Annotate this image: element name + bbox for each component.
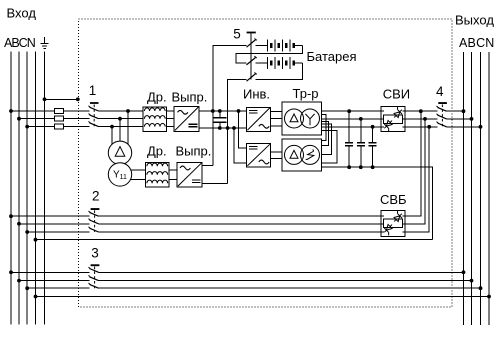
output bus line B [471,52,473,325]
wire T1-T2 tie 3 [322,124,332,154]
wire feed2 neutral [36,239,433,241]
wire Q4 phase B to output [447,118,472,120]
node drop B to transformer V1 [119,119,121,142]
breaker Q4 [437,102,447,127]
label 5 [233,27,241,42]
label Вход [7,6,37,21]
wire T1-T2 tie 4 [322,130,338,163]
battery GB2 [267,57,302,69]
svg-text:5: 5 [233,27,241,42]
breaker Q3 [89,264,100,288]
static switch U6 bypass [381,210,405,236]
wire battery plus riser [213,45,247,165]
UPS cabinet dotted border [79,19,453,307]
svg-text:1: 1 [89,83,97,98]
label 2 [92,189,100,204]
svg-text:Выпр.: Выпр. [176,144,212,159]
node drop C to transformer V1 [111,127,113,145]
label Y11 winding [113,170,127,181]
wire feed1 phase B [19,118,143,120]
label СВБ [380,192,407,207]
svg-text:Батарея: Батарея [307,49,357,64]
capacitor C4 filter C [369,127,377,167]
choke L1 [143,107,167,131]
label Выход [455,13,494,28]
node DC bus minus junctions [218,126,236,130]
wire feed2 phase A [11,215,384,217]
svg-text:ABCN: ABCN [459,36,495,50]
capacitor C3 filter B [357,119,365,167]
rectifier U2 [177,162,202,187]
transformer T1 [282,102,322,135]
svg-text:Др.: Др. [147,144,167,159]
wire GB2 return [256,63,303,79]
label Др. upper [147,89,167,104]
svg-text:Выход: Выход [455,13,494,28]
label Выпр. upper [172,89,208,104]
label 1 [89,83,97,98]
svg-text:3: 3 [91,246,99,261]
choke L2 [146,162,170,187]
input bus line B [18,52,20,325]
label Др. lower [147,144,167,159]
svg-text:СВБ: СВБ [380,192,407,207]
wire feed2 phase B [19,223,384,225]
wire feed3 phase B [19,280,472,282]
node neutral bus junctions [347,165,374,169]
rectifier U1 [174,106,199,131]
label 4 [436,84,444,99]
wire bus plus to inverter U4 [239,111,247,148]
wire Q4 phase A to output [447,110,464,112]
svg-text:Вход: Вход [7,6,37,21]
input bus line C [26,52,28,325]
wires inverter U4 to transformer T2 [271,152,282,159]
label Тр-р [293,86,319,101]
input bus line PE [44,52,46,325]
node PE tap junctions [43,97,80,101]
wire feed3 phase A [11,271,464,273]
inverter U3 [247,107,271,131]
wire battery loop GB1 to GB2 [236,45,302,63]
wire U2 minus out [202,183,228,185]
wire T1-T2 tie 1 [322,114,326,140]
transformer V1 measuring [108,141,131,186]
wire battery minus riser [228,79,247,183]
wires choke L2 to rectifier U2 [169,170,177,180]
capacitor C2 filter A [345,111,353,167]
output bus line A [463,52,465,325]
wire DC bus minus [199,127,247,129]
node output junctions from Q4 [462,109,483,128]
node feed3 taps on input bus [9,270,37,298]
label Батарея [307,49,357,64]
wire T1 phase A out [322,110,438,112]
label ABCN output [459,36,495,50]
svg-text:Инв.: Инв. [243,86,270,101]
label Выпр. lower [176,144,212,159]
svg-text:4: 4 [436,84,444,99]
wire T1-T2 tie 2 [322,122,329,146]
inverter U4 [247,143,271,167]
label ABCN input [4,36,36,50]
node output junctions from feed3 [462,270,491,298]
input bus line A [10,52,12,325]
transformer T2 [282,139,322,171]
switch Q5 battery [247,32,257,82]
wires choke L1 to rectifier U1 [167,111,175,127]
node bypass tie junctions [419,109,431,128]
breaker Q1 [89,102,99,127]
node DC bus plus junctions [211,109,241,113]
wire neutral bus to bypass [322,167,433,240]
node V1 taps after Q1 [110,109,130,128]
wire Q5 to battery GB1 [256,44,268,46]
wire bypass riser A [402,111,420,216]
ground PE symbol [41,37,49,48]
wire T1 phase C out [322,126,438,128]
label 3 [91,246,99,261]
fuse FC [54,124,63,129]
wire feed1 phase A [11,110,143,112]
capacitor C1 DC link [213,111,226,128]
node feed2 taps on input bus [9,214,37,241]
input bus line N [35,52,37,325]
svg-text:Др.: Др. [147,89,167,104]
svg-text:СВИ: СВИ [383,87,410,102]
svg-text:Тр-р: Тр-р [293,86,319,101]
output bus line C [480,52,482,325]
wires inverter U3 to transformer T1 [271,112,282,127]
wire feed2 phase C [27,231,384,233]
wires V1 to choke L2 [131,170,146,180]
wire bypass riser B [402,119,425,224]
fuse FA [54,109,63,114]
svg-text:ABCN: ABCN [4,36,36,50]
output bus line N [488,52,490,325]
label Инв. [243,86,270,101]
breaker Q2 [89,208,100,232]
battery GB1 [267,39,302,51]
wire Q5 to battery GB2 [256,62,268,64]
static switch U5 inverter side [381,106,405,132]
wire T1 phase B out [322,118,438,120]
wire feed1 phase C [27,126,143,128]
wire U2 plus out [202,165,213,167]
node drop A to transformer V1 [127,111,129,145]
wire DC bus plus [199,110,247,112]
node filter capacitor top junctions [347,109,374,128]
fuse FB [54,116,63,121]
wire Q4 phase C to output [447,126,481,128]
wire bypass riser C [402,127,429,232]
svg-text:2: 2 [92,189,100,204]
svg-text:Выпр.: Выпр. [172,89,208,104]
wire bus minus to inverter U4 [234,128,247,163]
label СВИ [383,87,410,102]
wire feed3 neutral [36,296,490,298]
wire PE to cabinet [45,98,78,100]
node feed1 taps on input bus [9,109,29,128]
wire feed3 phase C [27,287,480,289]
